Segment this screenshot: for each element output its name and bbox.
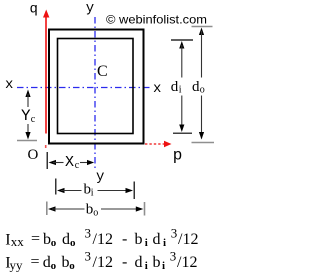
dimension Y_c shaft upper bbox=[27, 94, 29, 107]
svg-text:3: 3 bbox=[85, 249, 92, 264]
svg-text:x: x bbox=[153, 81, 161, 97]
dimension d_o top tick (gray) bbox=[192, 26, 213, 28]
dimension X_c right arrow bbox=[87, 160, 94, 165]
dimension b_i left shaft bbox=[61, 190, 82, 192]
dimension b_o left shaft bbox=[52, 208, 85, 210]
dimension b_o right shaft bbox=[101, 208, 138, 210]
svg-text:/12: /12 bbox=[93, 254, 113, 271]
svg-text:d: d bbox=[171, 79, 179, 95]
svg-text:b: b bbox=[86, 202, 94, 218]
svg-text:y: y bbox=[86, 1, 94, 17]
svg-text:x: x bbox=[5, 77, 13, 93]
svg-text:3: 3 bbox=[171, 226, 178, 241]
svg-text:/12: /12 bbox=[177, 254, 197, 271]
svg-text:/12: /12 bbox=[178, 231, 198, 248]
inner rectangle b_i x d_i bbox=[58, 39, 134, 134]
dimension X_c left arrow bbox=[49, 160, 57, 165]
dimension b_o right tick (gray) bbox=[144, 202, 146, 216]
axis q red dash near origin bbox=[45, 145, 47, 148]
dimension b_i right arrow bbox=[126, 188, 134, 193]
svg-text:-: - bbox=[122, 231, 127, 248]
dimension b_o right arrow bbox=[136, 206, 144, 211]
axis q (red vertical) bbox=[45, 14, 47, 134]
dimension Y_c arrow up bbox=[25, 90, 30, 98]
svg-text:b: b bbox=[62, 254, 70, 271]
svg-text:i: i bbox=[162, 260, 165, 272]
svg-text:d: d bbox=[153, 231, 161, 248]
svg-text:d: d bbox=[62, 231, 70, 248]
svg-text:C: C bbox=[97, 63, 108, 80]
svg-text:b: b bbox=[135, 231, 143, 248]
svg-text:3: 3 bbox=[170, 249, 177, 264]
svg-text:c: c bbox=[75, 160, 80, 171]
axis x (blue dash-dot) bbox=[17, 87, 152, 89]
svg-text:3: 3 bbox=[85, 226, 92, 241]
svg-text:O: O bbox=[28, 147, 39, 163]
dimension b_i right shaft bbox=[98, 190, 129, 192]
formula Iyy bbox=[5, 249, 197, 273]
svg-text:o: o bbox=[51, 260, 57, 272]
outer rectangle b_o x d_o bbox=[49, 30, 144, 144]
svg-text:-: - bbox=[122, 254, 127, 271]
formula Ixx bbox=[5, 226, 198, 250]
dimension b_o left tick (gray) bbox=[46, 202, 48, 216]
svg-text:b: b bbox=[43, 231, 51, 248]
svg-text:i: i bbox=[145, 237, 148, 249]
dimension d_i top tick bbox=[171, 39, 193, 41]
svg-text:i: i bbox=[91, 188, 94, 199]
svg-text:c: c bbox=[31, 114, 36, 125]
dimension X_c right shaft bbox=[80, 162, 89, 164]
svg-text:o: o bbox=[69, 260, 75, 272]
svg-text:i: i bbox=[163, 237, 166, 249]
svg-text:/12: /12 bbox=[93, 231, 113, 248]
dimension Y_c bottom extension tick (gray) bbox=[17, 140, 37, 142]
svg-text:y: y bbox=[96, 169, 104, 185]
svg-text:o: o bbox=[200, 85, 205, 96]
svg-text:o: o bbox=[93, 208, 98, 219]
dimension Y_c shaft lower bbox=[27, 124, 29, 134]
svg-text:d: d bbox=[135, 254, 143, 271]
dimension d_i top arrow bbox=[179, 41, 184, 49]
svg-text:i: i bbox=[145, 260, 148, 272]
dimension d_o upper shaft bbox=[201, 31, 203, 78]
svg-text:Y: Y bbox=[21, 107, 31, 125]
dimension b_i left arrow bbox=[57, 188, 65, 193]
svg-text:d: d bbox=[43, 254, 51, 271]
dimension X_c left shaft bbox=[53, 162, 64, 164]
axis q arrowhead bbox=[43, 10, 49, 18]
svg-text:X: X bbox=[65, 154, 74, 171]
svg-text:b: b bbox=[153, 254, 161, 271]
dimension X_c left tick bbox=[46, 152, 48, 169]
svg-text:=: = bbox=[31, 231, 40, 248]
axis p (red horizontal, dotted) bbox=[145, 143, 165, 145]
dimension b_o left arrow bbox=[48, 206, 56, 211]
axis p arrowhead bbox=[164, 141, 172, 147]
svg-text:o: o bbox=[70, 237, 76, 249]
svg-text:p: p bbox=[173, 147, 183, 165]
svg-text:yy: yy bbox=[10, 257, 24, 272]
dimension d_o bottom tick (gray) bbox=[192, 142, 215, 144]
svg-text:o: o bbox=[51, 237, 57, 249]
svg-text:q: q bbox=[30, 2, 38, 18]
dimension d_i lower shaft bbox=[181, 96, 183, 129]
svg-text:i: i bbox=[179, 85, 182, 96]
dimension d_o bottom arrow bbox=[199, 132, 204, 140]
dimension d_i bottom arrow bbox=[179, 125, 184, 133]
dimension b_i left tick bbox=[55, 179, 57, 195]
svg-text:=: = bbox=[31, 254, 40, 271]
svg-text:© webinfolist.com: © webinfolist.com bbox=[106, 13, 207, 27]
dimension d_o lower shaft bbox=[201, 96, 203, 139]
dimension Y_c arrow down bbox=[25, 132, 30, 140]
dimension d_o top arrow bbox=[199, 28, 204, 36]
axis y (blue dash-dot) bbox=[94, 17, 96, 171]
svg-text:xx: xx bbox=[11, 234, 24, 249]
dimension d_i upper shaft bbox=[181, 45, 183, 78]
dimension d_i bottom tick bbox=[173, 132, 192, 134]
dimension b_i right tick bbox=[133, 182, 135, 200]
